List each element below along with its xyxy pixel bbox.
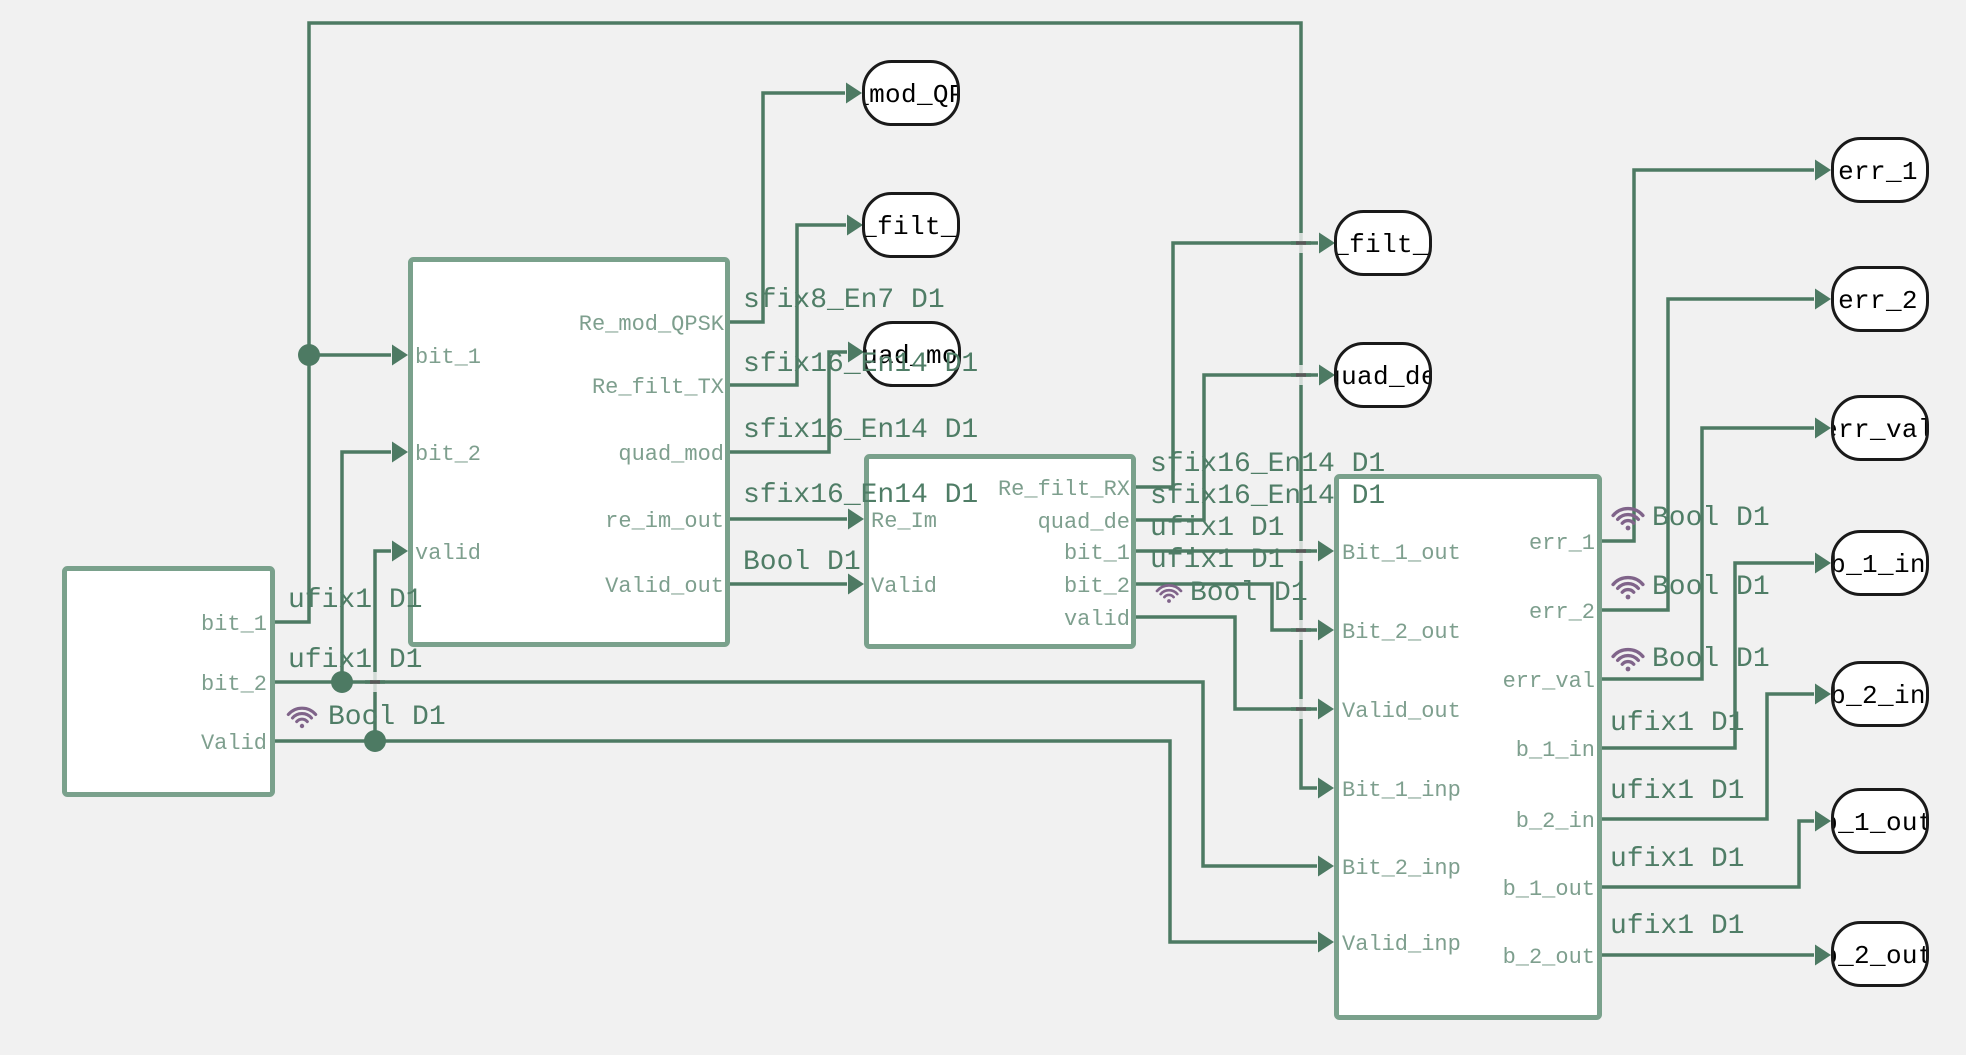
svg-text:quad_de: quad_de — [1325, 362, 1437, 392]
wire Re_mod_QPSK to mod_Q terminal — [730, 93, 845, 322]
svg-text:Bool D1: Bool D1 — [328, 702, 446, 733]
svg-text:b_2_out: b_2_out — [1822, 941, 1934, 971]
wire err_val to err_val terminal — [1602, 428, 1814, 679]
wire re_im_out to Re_Im — [730, 517, 847, 521]
terminal err_1 — [1833, 139, 1928, 202]
arrow into Valid_out — [1318, 699, 1334, 720]
arrow into TX bit_1 — [392, 345, 408, 366]
wire Valid: source to Valid_inp — [275, 741, 1317, 942]
svg-text:sfix8_En7 D1: sfix8_En7 D1 — [743, 285, 945, 316]
svg-text:err_1: err_1 — [1838, 157, 1918, 187]
arrow into err_val terminal — [1815, 418, 1831, 439]
svg-text:b_1_out: b_1_out — [1822, 808, 1934, 838]
arrow into b_1_out terminal — [1815, 811, 1831, 832]
wifi test-point icon on RX valid wire — [1157, 585, 1181, 603]
svg-text:Bit_1_inp: Bit_1_inp — [1342, 778, 1461, 803]
wire bit_1 branch into TX bit_1 — [309, 353, 391, 357]
svg-text:valid: valid — [415, 541, 481, 566]
svg-text:ufix1 D1: ufix1 D1 — [1610, 911, 1744, 942]
arrow into quad_mo terminal — [848, 342, 864, 363]
svg-text:Valid_inp: Valid_inp — [1342, 932, 1461, 957]
wire valid RX to Valid_out — [1136, 617, 1317, 709]
arrow into RX Re_Im — [848, 509, 864, 530]
wifi test-point icon on err_2 wire — [1613, 578, 1643, 600]
wire b_2_in to b_2_in terminal — [1602, 694, 1814, 819]
svg-text:sfix16_En14 D1: sfix16_En14 D1 — [743, 349, 978, 380]
svg-text:err_2: err_2 — [1838, 286, 1918, 316]
svg-text:b_2_in: b_2_in — [1830, 681, 1926, 711]
terminal mod_Q — [821, 62, 997, 125]
wire bit_2 RX to Bit_2_out — [1136, 584, 1317, 630]
wire b_1_out to b_1_out terminal — [1602, 821, 1814, 887]
svg-text:bit_1: bit_1 — [201, 612, 267, 637]
terminal err_val — [1822, 397, 1934, 460]
svg-text:ufix1 D1: ufix1 D1 — [288, 645, 422, 676]
svg-text:err_val: err_val — [1822, 415, 1934, 445]
terminal _filt_ top — [829, 194, 989, 257]
svg-text:Valid_out: Valid_out — [1342, 699, 1461, 724]
terminal quad_d — [1325, 344, 1437, 407]
svg-text:Bit_1_out: Bit_1_out — [1342, 541, 1461, 566]
terminal quad_mo — [846, 323, 974, 386]
svg-text:quad_mod: quad_mod — [618, 442, 724, 467]
svg-text:Bool D1: Bool D1 — [743, 547, 861, 578]
arrow into quad_d terminal — [1319, 365, 1335, 386]
svg-text:Bool D1: Bool D1 — [1190, 578, 1308, 609]
arrow into RX Valid — [848, 574, 864, 595]
wire bit_1: source to top bus and Bit_1_inp — [275, 23, 1317, 788]
wire b_2_out to b_2_out terminal — [1602, 953, 1814, 957]
svg-text:sfix16_En14 D1: sfix16_En14 D1 — [1150, 481, 1385, 512]
svg-text:Re_mod_QPSK: Re_mod_QPSK — [579, 312, 725, 337]
wire crossing at 375,682 — [365, 672, 385, 692]
svg-text:bit_1: bit_1 — [415, 345, 481, 370]
wire crossing at 1301,551 — [1291, 541, 1311, 561]
svg-text:err_2: err_2 — [1529, 600, 1595, 625]
arrow into Bit_2_out — [1318, 620, 1334, 641]
arrow into _filt_ terminal — [847, 215, 863, 236]
arrow into Bit_1_out — [1318, 541, 1334, 562]
arrow into err_1 terminal — [1815, 160, 1831, 181]
arrow into TX valid — [392, 541, 408, 562]
svg-text:re_im_out: re_im_out — [605, 509, 724, 534]
svg-text:b_2_in: b_2_in — [1516, 809, 1595, 834]
svg-text:valid: valid — [1064, 607, 1130, 632]
wire crossing at 1301,630 — [1291, 620, 1311, 640]
arrow into b_2_out terminal — [1815, 945, 1831, 966]
svg-text:b_1_in: b_1_in — [1516, 738, 1595, 763]
svg-text:ufix1 D1: ufix1 D1 — [1610, 708, 1744, 739]
wifi test-point icon on err_1 wire — [1613, 509, 1643, 531]
svg-text:ufix1 D1: ufix1 D1 — [1610, 844, 1744, 875]
wire crossing at 1301,375 — [1291, 365, 1311, 385]
svg-text:quad_de: quad_de — [1038, 510, 1130, 535]
svg-text:Bit_2_out: Bit_2_out — [1342, 620, 1461, 645]
subsystem RX demodulator block — [867, 457, 1134, 647]
svg-text:bit_2: bit_2 — [201, 672, 267, 697]
wire bit_2 branch into TX bit_2 — [342, 452, 391, 682]
arrow into mod_Q terminal — [846, 83, 862, 104]
wire Valid branch into TX valid — [375, 551, 391, 741]
wire crossing at 1301,709 — [1291, 699, 1311, 719]
arrow into Bit_2_inp — [1318, 856, 1334, 877]
subsystem TX modulator block — [411, 260, 728, 645]
svg-text:Valid_out: Valid_out — [605, 574, 724, 599]
svg-text:ufix1 D1: ufix1 D1 — [288, 585, 422, 616]
svg-text:sfix16_En14 D1: sfix16_En14 D1 — [743, 415, 978, 446]
svg-text:sfix16_En14 D1: sfix16_En14 D1 — [743, 480, 978, 511]
svg-text:err_val: err_val — [1503, 669, 1595, 694]
wire crossing at 1301,243 — [1291, 233, 1311, 253]
wire Valid_out to Valid — [730, 582, 847, 586]
svg-text:b_2_out: b_2_out — [1503, 945, 1595, 970]
wire bit_2: source to Bit_2_inp — [275, 682, 1317, 866]
junction dot bit_1 branch — [298, 344, 320, 366]
junction dot Valid branch — [364, 730, 386, 752]
svg-text:ufix1 D1: ufix1 D1 — [1150, 513, 1284, 544]
svg-text:bit_2: bit_2 — [1064, 574, 1130, 599]
svg-text:ufix1 D1: ufix1 D1 — [1610, 776, 1744, 807]
wire err_1 to err_1 terminal — [1602, 170, 1814, 541]
svg-text:Bit_2_inp: Bit_2_inp — [1342, 856, 1461, 881]
svg-text:sfix16_En14 D1: sfix16_En14 D1 — [1150, 449, 1385, 480]
arrow into b_1_in terminal — [1815, 553, 1831, 574]
wire bit_1 RX to Bit_1_out — [1136, 549, 1317, 553]
arrow into Bit_1_inp — [1318, 778, 1334, 799]
arrow into b_2_in terminal — [1815, 684, 1831, 705]
terminal err_2 — [1833, 268, 1928, 331]
svg-text:b_1_in: b_1_in — [1830, 550, 1926, 580]
arrow into _filt_ right terminal — [1319, 233, 1335, 254]
wire err_2 to err_2 terminal — [1602, 299, 1814, 610]
subsystem source block (Data source) — [65, 569, 273, 795]
svg-text:Re_Im: Re_Im — [871, 509, 937, 534]
svg-text:err_1: err_1 — [1529, 531, 1595, 556]
terminal b_1_in — [1830, 532, 1927, 595]
svg-text:ufix1 D1: ufix1 D1 — [1150, 545, 1284, 576]
terminal b_1_out — [1822, 790, 1934, 853]
svg-text:Bool D1: Bool D1 — [1652, 503, 1770, 534]
wifi test-point icon on Valid wire — [288, 708, 315, 728]
wire Re_filt_TX to _filt_ terminal — [730, 225, 846, 385]
svg-text:Bool D1: Bool D1 — [1652, 572, 1770, 603]
subsystem error-check block — [1337, 477, 1600, 1018]
svg-text:Re_filt_RX: Re_filt_RX — [998, 477, 1130, 502]
wire quad_de to quad_d terminal — [1136, 375, 1318, 520]
svg-text:Valid: Valid — [871, 574, 937, 599]
svg-text:Re_filt_TX: Re_filt_TX — [592, 375, 724, 400]
svg-text:Valid: Valid — [201, 731, 267, 756]
wire Re_filt_RX to _filt_ terminal right — [1136, 243, 1318, 487]
terminal _filt_ right — [1301, 212, 1461, 275]
arrow into err_2 terminal — [1815, 289, 1831, 310]
svg-text:bit_1: bit_1 — [1064, 541, 1130, 566]
svg-text:b_1_out: b_1_out — [1503, 877, 1595, 902]
arrow into TX bit_2 — [392, 442, 408, 463]
wire quad_mod to quad_mo terminal — [730, 352, 847, 452]
svg-text:Bool D1: Bool D1 — [1652, 644, 1770, 675]
svg-text:bit_2: bit_2 — [415, 442, 481, 467]
terminal b_2_out — [1822, 923, 1934, 986]
wifi test-point icon on err_val wire — [1613, 650, 1643, 672]
terminal b_2_in — [1830, 663, 1927, 726]
junction dot bit_2 branch — [331, 671, 353, 693]
arrow into Valid_inp — [1318, 932, 1334, 953]
wire b_1_in to b_1_in terminal — [1602, 563, 1814, 748]
